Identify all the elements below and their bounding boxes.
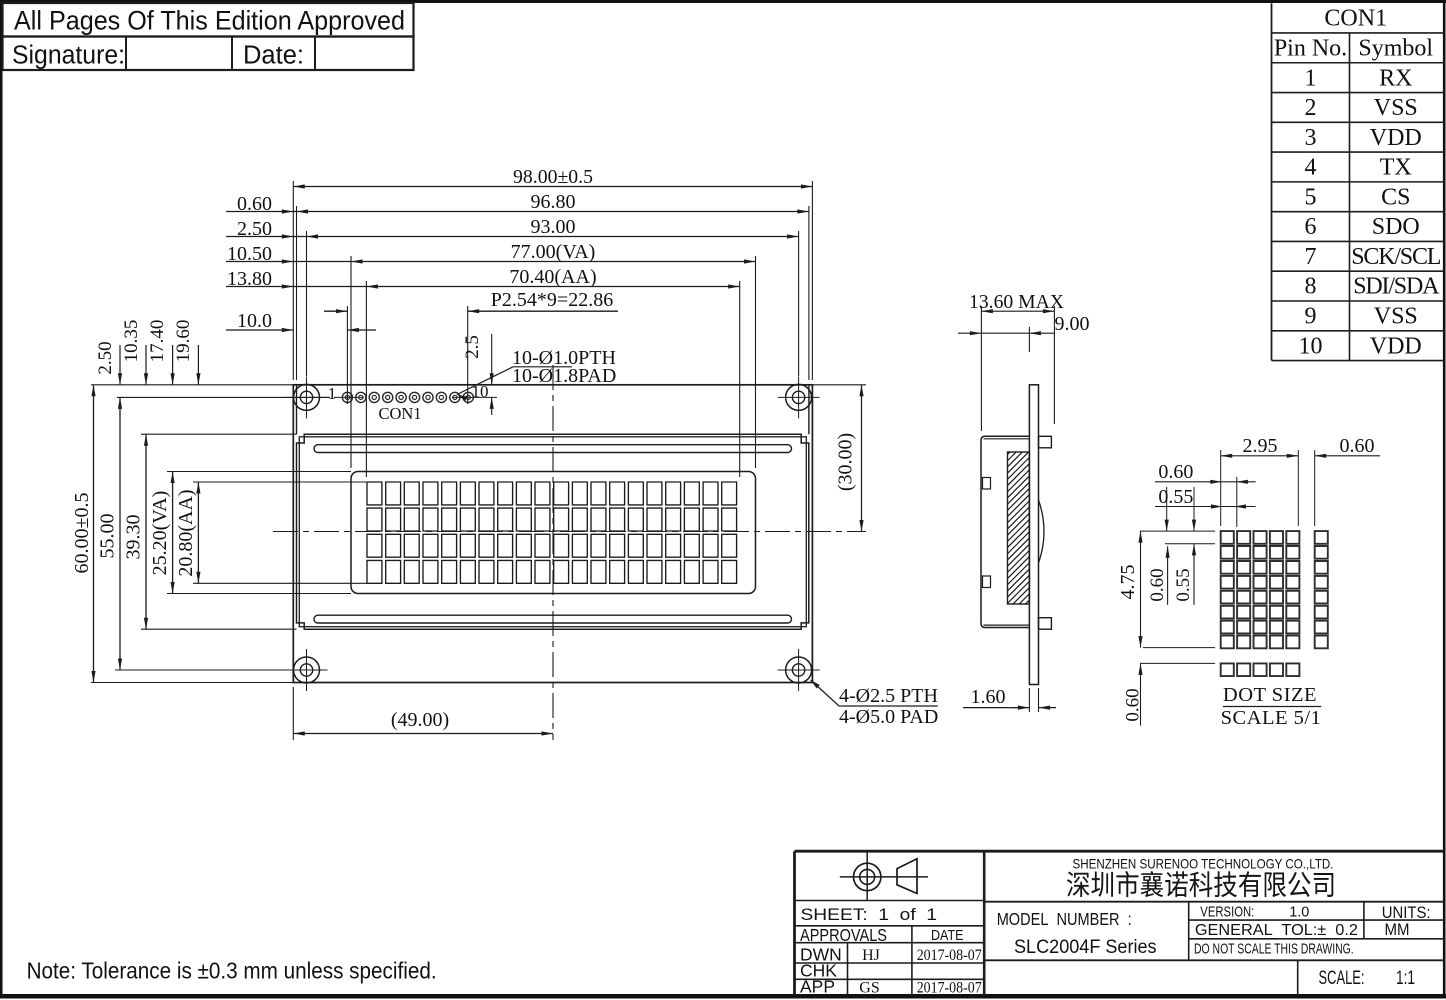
dimension 77.00(VA) and 10.50 <box>226 241 756 265</box>
svg-text:0.60: 0.60 <box>1340 435 1375 457</box>
svg-text:1: 1 <box>328 384 337 403</box>
svg-text:25.20(VA): 25.20(VA) <box>149 491 171 576</box>
LCD module front view: PCB outline <box>293 385 812 683</box>
dot detail dimension 0.60 horizontal pitch <box>1155 461 1256 527</box>
svg-text:1.0: 1.0 <box>1289 905 1309 921</box>
dot detail dimension 0.60 (cursor gap) <box>1315 435 1381 526</box>
svg-text:0.55: 0.55 <box>1173 568 1194 601</box>
svg-text:SDO: SDO <box>1372 214 1420 240</box>
svg-text:APP: APP <box>800 977 835 997</box>
svg-text:4: 4 <box>1305 155 1317 181</box>
dimension 25.20(VA) and 17.40 (vertical) <box>147 320 175 594</box>
svg-text:HJ: HJ <box>862 947 880 964</box>
svg-text:55.00: 55.00 <box>97 514 119 559</box>
svg-text:CON1: CON1 <box>1324 6 1387 32</box>
side view PCB <box>1029 385 1038 685</box>
svg-text:Symbol: Symbol <box>1358 35 1433 61</box>
svg-text:VERSION:: VERSION: <box>1200 905 1254 921</box>
dimension 1.60 <box>963 686 1056 712</box>
hole callout 4-Ø2.5 PTH / 4-Ø5.0 PAD <box>811 680 939 728</box>
svg-text:Pin No.: Pin No. <box>1274 35 1347 61</box>
company name english <box>1073 856 1334 871</box>
dot detail dimension 4.75 (vertical) <box>1117 531 1143 648</box>
dot matrix extra column (cursor) <box>1315 531 1328 648</box>
svg-text:10: 10 <box>1299 333 1323 359</box>
company name chinese <box>1067 871 1333 897</box>
svg-text:10: 10 <box>472 382 489 401</box>
svg-text:98.00±0.5: 98.00±0.5 <box>513 166 593 188</box>
vertical centerline <box>552 365 554 740</box>
svg-text:6: 6 <box>1305 214 1317 240</box>
pad callout 10-Ø1.0PTH / 10-Ø1.8PAD <box>457 347 616 401</box>
dimension 20.80(AA) and 19.60 (vertical) <box>173 320 201 584</box>
dimension 10.0 <box>226 310 376 332</box>
character matrix 20x4 (AA) <box>367 482 737 583</box>
svg-text:2.95: 2.95 <box>1243 435 1278 457</box>
svg-text:All Pages Of This Edition Appr: All Pages Of This Edition Approved <box>14 6 405 36</box>
svg-text:RX: RX <box>1379 65 1412 91</box>
svg-text:4.75: 4.75 <box>1117 565 1139 600</box>
approval box: All Pages Of This Edition Approved <box>3 3 414 70</box>
svg-text:DOT SIZE: DOT SIZE <box>1223 684 1317 706</box>
svg-text:0.60: 0.60 <box>1158 461 1193 483</box>
svg-text:7: 7 <box>1305 244 1317 270</box>
pin row centerline <box>334 396 497 398</box>
svg-text:GS: GS <box>859 980 879 997</box>
svg-text:60.00±0.5: 60.00±0.5 <box>71 493 93 574</box>
dimension 9.00 <box>958 313 1090 352</box>
tolerance note <box>27 958 437 984</box>
side view LCD body <box>981 436 1029 627</box>
svg-text:VSS: VSS <box>1374 95 1418 121</box>
svg-text:9: 9 <box>1305 304 1317 330</box>
svg-text:(49.00): (49.00) <box>391 709 449 731</box>
svg-text:4-Ø5.0 PAD: 4-Ø5.0 PAD <box>839 706 938 728</box>
svg-text:Date:: Date: <box>243 42 304 70</box>
do not scale cell <box>1194 941 1354 958</box>
svg-text:MODEL NUMBER :: MODEL NUMBER : <box>997 909 1132 929</box>
bottom slot in bezel <box>314 615 792 623</box>
svg-text:SHENZHEN SURENOO TECHNOLOGY CO: SHENZHEN SURENOO TECHNOLOGY CO.,LTD. <box>1073 856 1334 871</box>
dimension 93.00 and 2.50 <box>226 216 799 240</box>
dimension (30.00) right side <box>812 385 866 532</box>
mounting hole bottom-right <box>778 649 820 691</box>
dot detail dimension 0.60 bottom row gap <box>1123 663 1144 725</box>
general tol cell <box>1195 922 1358 939</box>
svg-text:VDD: VDD <box>1370 333 1422 359</box>
svg-text:SCALE 5/1: SCALE 5/1 <box>1221 707 1322 729</box>
svg-text:93.00: 93.00 <box>531 216 576 238</box>
svg-text:10.0: 10.0 <box>237 310 272 332</box>
svg-text:2017-08-07: 2017-08-07 <box>917 947 982 964</box>
svg-text:70.40(AA): 70.40(AA) <box>509 266 596 288</box>
svg-text:Signature:: Signature: <box>12 42 125 70</box>
extension lines left of module <box>91 385 366 683</box>
svg-text:0.55: 0.55 <box>1158 486 1193 508</box>
svg-text:8: 8 <box>1305 274 1317 300</box>
dimension P2.54*9=22.86 <box>324 289 618 313</box>
dimension (49.00) bottom <box>293 687 553 740</box>
svg-text:SLC2004F Series: SLC2004F Series <box>1014 936 1157 958</box>
svg-text:CON1: CON1 <box>378 404 421 423</box>
third angle projection symbol <box>840 853 928 902</box>
svg-text:77.00(VA): 77.00(VA) <box>511 241 596 263</box>
approvals row DWN <box>800 945 982 965</box>
svg-text:APPROVALS: APPROVALS <box>800 925 887 945</box>
svg-text:4-Ø2.5 PTH: 4-Ø2.5 PTH <box>839 685 938 707</box>
dimension 60.00±0.5 (vertical) <box>71 385 96 683</box>
svg-text:20.80(AA): 20.80(AA) <box>175 489 197 576</box>
pin 1 label <box>328 384 337 403</box>
dimension 13.60 MAX <box>969 291 1065 431</box>
svg-text:SDI/SDA: SDI/SDA <box>1353 274 1440 300</box>
display window VA outline <box>351 472 756 594</box>
svg-text:SCALE:: SCALE: <box>1319 968 1365 989</box>
svg-text:0.60: 0.60 <box>1147 568 1168 601</box>
glass edge lines (96.80 outline) <box>297 385 809 434</box>
mounting hole bottom-left <box>286 649 328 691</box>
dot detail dimension 2.95 <box>1221 435 1299 526</box>
svg-text:2.5: 2.5 <box>462 335 483 359</box>
dot matrix extra row <box>1221 663 1300 676</box>
approvals header <box>800 925 964 945</box>
side view backlight bulge <box>1039 500 1045 563</box>
svg-text:1:1: 1:1 <box>1396 968 1415 989</box>
svg-text:5: 5 <box>1305 184 1317 210</box>
svg-text:SHEET: 1 of 1: SHEET: 1 of 1 <box>801 905 938 924</box>
dot detail vertical arrows and ticks <box>1140 487 1215 663</box>
svg-text:17.40: 17.40 <box>147 320 168 363</box>
horizontal centerline <box>273 531 866 533</box>
svg-text:MM: MM <box>1385 921 1410 939</box>
pin 10 label <box>472 382 489 401</box>
svg-text:19.60: 19.60 <box>173 320 194 363</box>
CON1 pin pads (10x) <box>342 392 473 402</box>
side view bezel tabs over PCB <box>1039 436 1052 629</box>
svg-text:VSS: VSS <box>1374 304 1418 330</box>
svg-text:1.60: 1.60 <box>971 686 1006 708</box>
title block frame <box>795 851 1445 995</box>
scale cell <box>1319 968 1416 989</box>
svg-text:Note: Tolerance is ±0.3 mm unl: Note: Tolerance is ±0.3 mm unless specif… <box>27 958 437 984</box>
mounting hole top-left <box>286 376 328 418</box>
approvals row CHK <box>800 961 837 981</box>
dimension 98.00±0.5 <box>293 166 812 189</box>
svg-text:VDD: VDD <box>1370 125 1422 151</box>
svg-text:P2.54*9=22.86: P2.54*9=22.86 <box>491 289 613 311</box>
svg-text:DO NOT SCALE THIS DRAWING.: DO NOT SCALE THIS DRAWING. <box>1194 941 1354 958</box>
svg-text:13.60 MAX: 13.60 MAX <box>969 291 1065 313</box>
metal bezel frame with corner notches <box>297 434 809 629</box>
svg-text:2: 2 <box>1305 95 1317 121</box>
svg-text:10-Ø1.8PAD: 10-Ø1.8PAD <box>512 365 616 387</box>
model number cell <box>997 909 1157 958</box>
svg-text:3: 3 <box>1305 125 1317 151</box>
svg-text:2.50: 2.50 <box>95 341 116 374</box>
dimension 96.80 and 0.60 <box>226 191 809 215</box>
svg-text:2017-08-07: 2017-08-07 <box>917 980 982 997</box>
dimension 2.5 (pin offset) <box>462 334 494 415</box>
approvals row APP <box>800 977 982 997</box>
extension lines above module <box>293 181 812 477</box>
svg-text:SCK/SCL: SCK/SCL <box>1351 244 1441 270</box>
svg-text:TX: TX <box>1380 155 1412 181</box>
dot detail dimension 0.60 vertical pitch <box>1147 546 1170 605</box>
dot matrix detail 5x8 grid <box>1221 531 1300 648</box>
caption DOT SIZE / SCALE 5/1 <box>1221 684 1322 729</box>
svg-text:1: 1 <box>1305 65 1317 91</box>
svg-text:UNITS:: UNITS: <box>1382 904 1431 922</box>
dimension 39.30 and 10.35 (vertical) <box>121 320 148 630</box>
svg-text:CS: CS <box>1381 184 1410 210</box>
dimension 55.00 and 2.50 (vertical) <box>95 341 122 670</box>
svg-text:9.00: 9.00 <box>1055 313 1090 335</box>
svg-text:10.35: 10.35 <box>121 320 142 363</box>
dot detail dimension 0.55 horizontal dot <box>1155 486 1256 509</box>
svg-text:(30.00): (30.00) <box>835 433 857 491</box>
units cell <box>1382 904 1431 939</box>
version cell <box>1200 905 1309 921</box>
mounting hole top-right <box>778 376 820 418</box>
svg-text:96.80: 96.80 <box>531 191 576 213</box>
svg-text:DATE: DATE <box>931 927 964 944</box>
sheet cell <box>801 905 938 924</box>
CON1 designator label <box>378 404 421 423</box>
side view LCD glass (hatched) <box>1000 422 1040 673</box>
svg-text:39.30: 39.30 <box>123 515 145 560</box>
connector pin table CON1 (top right) <box>1272 3 1445 360</box>
top slot in bezel <box>314 445 792 453</box>
svg-text:GENERAL TOL:± 0.2: GENERAL TOL:± 0.2 <box>1195 922 1358 939</box>
dimension 70.40(AA) and 13.80 <box>226 266 740 290</box>
dot detail dimension 0.55 vertical dot <box>1173 544 1196 605</box>
